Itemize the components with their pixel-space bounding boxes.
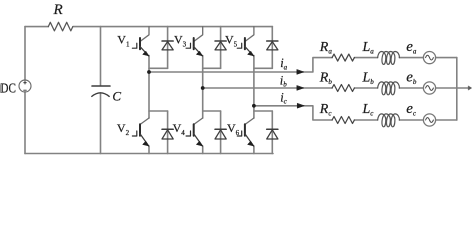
wire leg2 top jog <box>203 67 221 69</box>
wire row b middle <box>354 87 456 89</box>
wire row a middle <box>354 57 456 59</box>
wire leg3 emitter to rail <box>253 146 255 154</box>
node phase b <box>201 86 205 90</box>
ac source ea <box>423 52 435 64</box>
ac source ec <box>423 114 435 126</box>
wire output <box>457 87 469 89</box>
resistor R <box>48 22 72 31</box>
transistor V5 <box>237 27 254 56</box>
transistor V3 <box>186 27 203 56</box>
wire phase b <box>203 87 332 89</box>
wire leg1 emitter to rail <box>148 146 150 154</box>
transistor V1 <box>132 27 149 56</box>
diode VD5 <box>267 41 278 50</box>
node phase a <box>147 70 151 74</box>
diode VD2 <box>162 129 173 139</box>
arrow current ic <box>297 103 304 108</box>
wire leg1 bottom diode branch <box>167 111 169 154</box>
wire leg3 top jog <box>254 67 272 69</box>
arrow current ia <box>297 70 304 75</box>
wire leg2 vertical <box>202 56 204 118</box>
dc source UDC <box>19 80 31 92</box>
node phase c <box>252 104 256 108</box>
wire capacitor branch <box>100 27 102 154</box>
diode VD6 <box>267 129 278 139</box>
inductor Lc <box>378 114 400 127</box>
arrow output <box>468 86 472 90</box>
wire phase c <box>254 106 332 120</box>
diode VD3 <box>215 41 226 50</box>
wire leg1 bottom jog <box>149 110 168 112</box>
svg-text:R: R <box>53 2 63 18</box>
resistor Rc <box>332 117 354 124</box>
wire leg2 bottom jog <box>203 110 221 112</box>
wire leg3 bottom jog <box>254 110 272 112</box>
diode VD4 <box>215 129 226 139</box>
inductor La <box>378 52 400 65</box>
wire leg1 vertical <box>148 56 150 118</box>
wire right bus <box>456 58 458 120</box>
transistor V6 <box>237 118 254 146</box>
wire leg3 vertical <box>253 56 255 118</box>
resistor Ra <box>332 54 354 61</box>
wire phase a <box>149 58 332 72</box>
capacitor C <box>92 86 110 96</box>
label DC <box>0 82 16 97</box>
wire leg1 top diode branch <box>167 27 169 69</box>
ac source eb <box>423 82 435 94</box>
wire top rail <box>25 26 272 28</box>
transistor V2 <box>132 118 149 146</box>
resistor Rb <box>332 85 354 92</box>
svg-text:DC: DC <box>0 82 16 97</box>
diode VD1 <box>162 41 173 50</box>
wire leg2 bottom diode branch <box>220 111 222 154</box>
wire leg2 top diode branch <box>220 27 222 69</box>
transistor V4 <box>186 118 203 146</box>
wire leg3 bottom diode branch <box>271 111 273 154</box>
wire left <box>24 27 26 154</box>
wire bottom rail <box>25 153 273 155</box>
wire row c middle <box>354 119 456 121</box>
wire leg3 top diode branch <box>271 27 273 69</box>
wire leg1 top jog <box>149 67 168 69</box>
arrow current ib <box>297 86 304 91</box>
wire leg2 emitter to rail <box>202 146 204 154</box>
inductor Lb <box>378 82 400 95</box>
svg-text:C: C <box>112 89 121 104</box>
